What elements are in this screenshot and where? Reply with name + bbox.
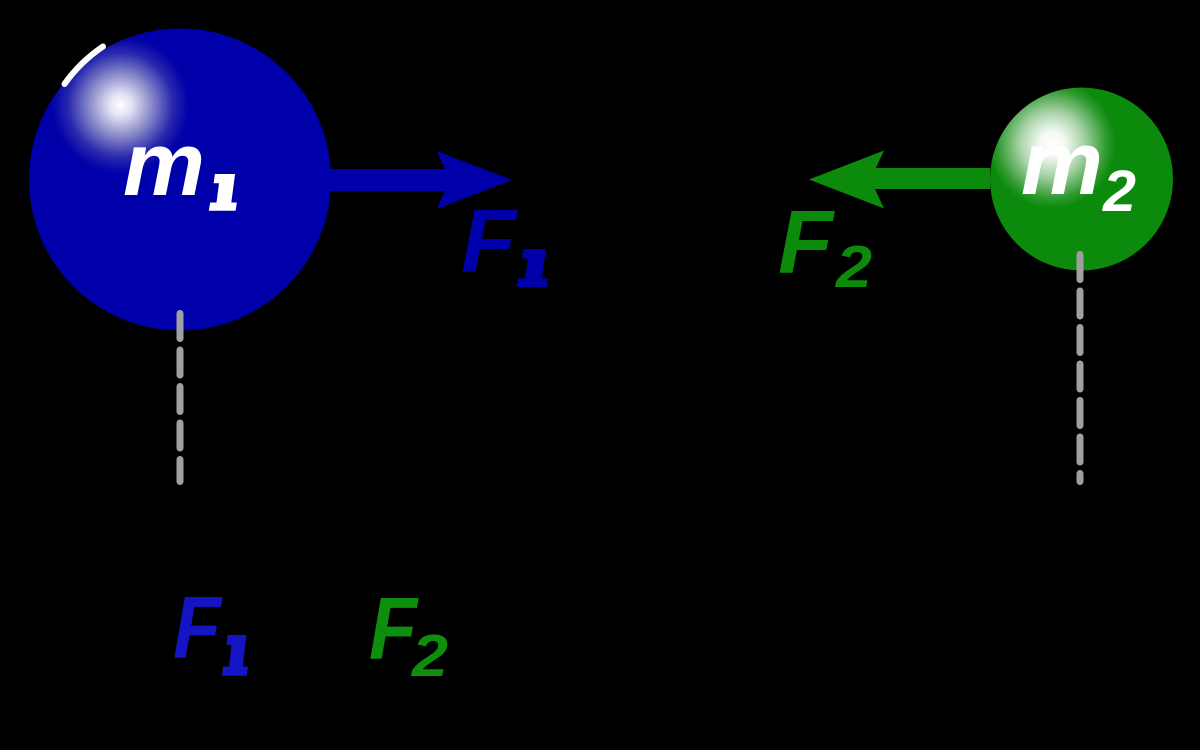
specular crescent on m1: [65, 47, 104, 85]
svg-text:F: F: [461, 192, 518, 292]
equation F1 term: [173, 578, 248, 677]
dashed plumb line under m1: [177, 314, 184, 482]
svg-text:2: 2: [411, 623, 448, 689]
svg-text:m: m: [1021, 114, 1103, 214]
svg-text:2: 2: [835, 234, 872, 300]
mass m1 sphere: [29, 29, 331, 331]
svg-text:F: F: [173, 578, 223, 677]
force arrow F2 (green, pointing left): [809, 151, 990, 209]
force arrow F1 (blue, pointing right): [330, 151, 512, 209]
svg-text:F: F: [778, 193, 835, 293]
svg-text:2: 2: [1102, 159, 1136, 224]
label F2 near arrow: [778, 193, 872, 300]
mass m2 sphere: [990, 88, 1173, 271]
label m2: [1021, 114, 1136, 224]
label m1: [123, 115, 237, 215]
equation F2 term: [369, 579, 448, 689]
svg-text:m: m: [123, 115, 205, 215]
dashed plumb line under m2: [1077, 255, 1084, 482]
label F1 near arrow: [461, 192, 548, 292]
